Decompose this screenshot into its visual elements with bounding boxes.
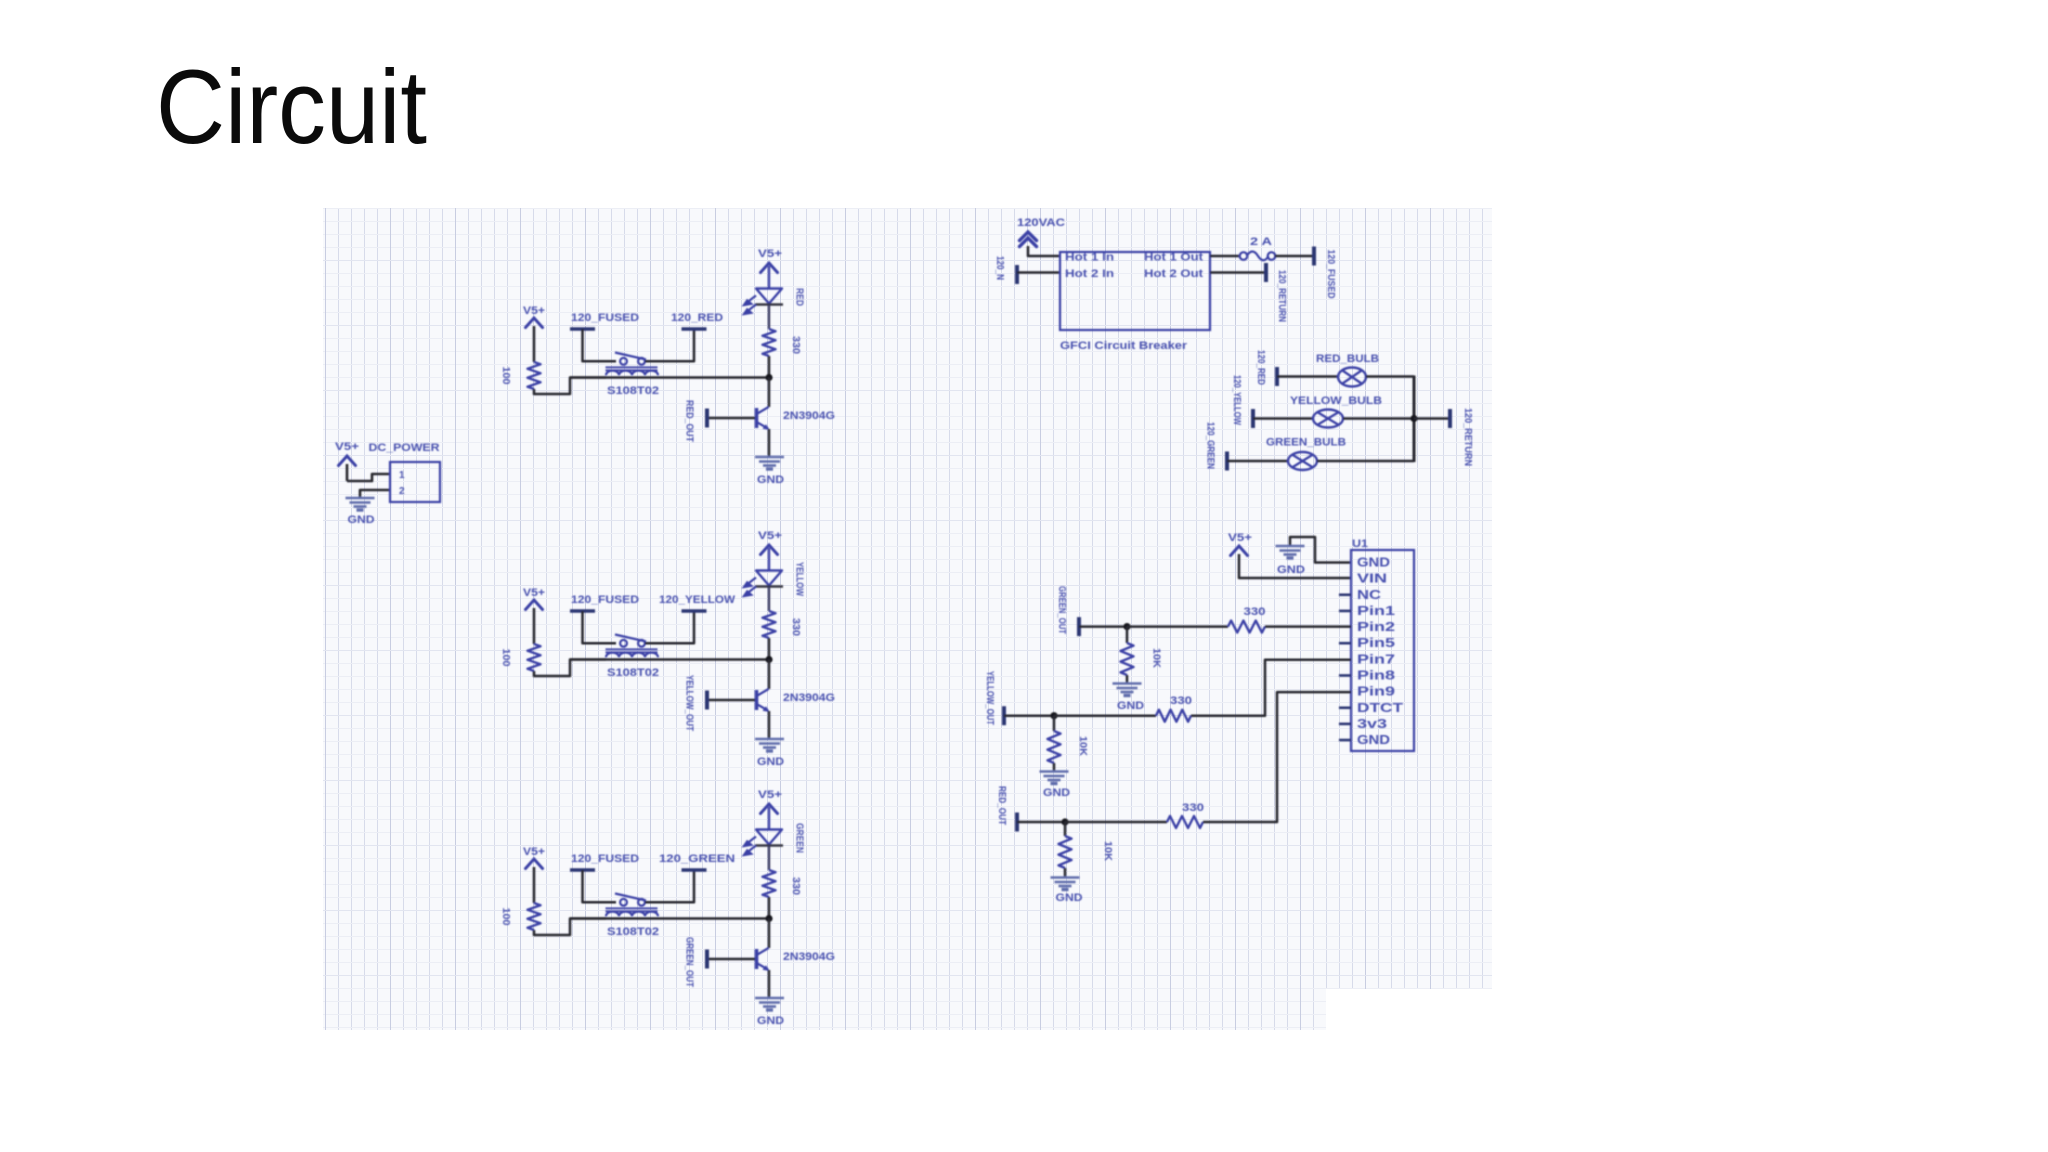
- svg-text:U1: U1: [1352, 538, 1368, 550]
- power flag V5+ (LED supply (RED driver)): [761, 263, 778, 273]
- svg-text:YELLOW_OUT: YELLOW_OUT: [684, 675, 695, 731]
- wire switch to 120_RED (RED driver): [645, 329, 694, 361]
- svg-text:GND: GND: [1357, 555, 1390, 570]
- relay switch contact (YELLOW driver): [615, 635, 646, 647]
- wire V5+ to resistor (RED driver): [533, 326, 536, 362]
- wire junction to transistor collector (YELLOW driver): [768, 660, 771, 690]
- net label 120_RETURN (breaker): [1264, 263, 1268, 282]
- wire 120_N to Hot 2 In: [1017, 271, 1059, 274]
- power flag V5+ (DC_POWER): [339, 456, 356, 466]
- node junction (GREEN driver): [765, 915, 772, 922]
- ground (U1 GND hook): [1276, 546, 1305, 558]
- wire junction to resistor 10K (green): [1126, 627, 1129, 643]
- svg-text:2: 2: [399, 486, 405, 497]
- wire junction to resistor 10K (red): [1064, 822, 1067, 836]
- net label 120_YELLOW (YELLOW driver): [682, 609, 707, 613]
- relay switch contact (RED driver): [615, 353, 646, 365]
- wire 10K to ground (red): [1064, 868, 1067, 877]
- svg-text:120_FUSED: 120_FUSED: [1325, 250, 1336, 299]
- wire Hot 2 Out to 120_RETURN: [1210, 271, 1264, 274]
- wire RED_OUT to junction: [1017, 821, 1065, 824]
- connector U1: [1351, 550, 1414, 751]
- wire GREEN_OUT to junction: [1079, 625, 1127, 628]
- svg-text:NC: NC: [1357, 587, 1382, 602]
- U1 pin 3v3: [1339, 723, 1351, 726]
- wire 120_FUSED to switch (GREEN driver): [583, 870, 617, 902]
- svg-text:GREEN_OUT: GREEN_OUT: [1056, 586, 1067, 634]
- svg-text:Pin9: Pin9: [1357, 684, 1395, 699]
- wire V5+ to LED (YELLOW driver): [768, 548, 770, 570]
- svg-text:V5+: V5+: [523, 305, 545, 317]
- wire switch to 120_GREEN (GREEN driver): [645, 870, 694, 902]
- GFCI Circuit Breaker box: [1060, 252, 1210, 330]
- power flag V5+ (LED supply (YELLOW driver)): [761, 545, 778, 555]
- svg-text:120_YELLOW: 120_YELLOW: [659, 594, 736, 606]
- wire junction to transistor collector (GREEN driver): [768, 919, 771, 949]
- svg-text:RED_OUT: RED_OUT: [684, 400, 695, 442]
- wire GREEN_BULB to return bus: [1317, 460, 1414, 463]
- wire junction to resistor 330 (green): [1127, 625, 1228, 628]
- resistor 330 (GREEN driver): [763, 870, 776, 897]
- svg-text:YELLOW_OUT: YELLOW_OUT: [984, 671, 995, 725]
- net label 120_FUSED (GREEN driver): [570, 868, 595, 872]
- relay switch contact (GREEN driver): [615, 894, 646, 906]
- wire V5+ to LED (RED driver): [768, 266, 770, 288]
- svg-text:V5+: V5+: [1228, 532, 1252, 544]
- svg-text:V5+: V5+: [523, 587, 545, 599]
- svg-text:Hot 1 Out: Hot 1 Out: [1144, 252, 1203, 264]
- net label 120_RED (RED driver): [682, 327, 707, 331]
- net label 120_RETURN (bulbs): [1448, 409, 1452, 428]
- svg-text:GND: GND: [1357, 732, 1390, 747]
- wire fuse to 120_FUSED: [1275, 255, 1313, 258]
- wire resistor 330 to U1 Pin7: [1191, 660, 1351, 716]
- power flag V5+ (U1): [1231, 546, 1248, 556]
- wire resistor 330 to U1 Pin2: [1265, 625, 1351, 628]
- wire YELLOW_OUT to junction: [1004, 714, 1054, 717]
- svg-text:GND: GND: [1056, 892, 1083, 904]
- svg-text:2N3904G: 2N3904G: [783, 692, 835, 704]
- svg-text:DTCT: DTCT: [1357, 700, 1403, 715]
- net label 120_GREEN (bulb feed): [1225, 452, 1229, 471]
- svg-text:Pin2: Pin2: [1357, 619, 1395, 634]
- svg-text:V5+: V5+: [335, 441, 359, 453]
- resistor 10K (yellow pulldown): [1048, 731, 1061, 763]
- svg-text:Hot 2 Out: Hot 2 Out: [1144, 268, 1203, 280]
- net label 120_FUSED (YELLOW driver): [570, 609, 595, 613]
- svg-text:GND: GND: [1043, 787, 1070, 799]
- svg-text:S108T02: S108T02: [607, 667, 659, 679]
- relay coil S108T02 (GREEN driver): [606, 907, 658, 909]
- wire base (RED driver): [709, 417, 755, 420]
- wire resistor to relay coil (GREEN driver): [534, 919, 606, 936]
- wire base (GREEN driver): [709, 958, 755, 961]
- lamp RED_BULB: [1338, 368, 1366, 387]
- wire 120_FUSED to switch (YELLOW driver): [583, 611, 617, 643]
- net label RED_OUT (RED driver): [705, 409, 709, 428]
- node RED_OUT junction: [1061, 818, 1068, 825]
- resistor 100 (GREEN driver): [528, 903, 541, 930]
- svg-text:GREEN: GREEN: [794, 823, 805, 853]
- svg-text:Hot 2 In: Hot 2 In: [1065, 268, 1114, 280]
- svg-text:GND: GND: [757, 1015, 784, 1027]
- svg-text:120_YELLOW: 120_YELLOW: [1231, 375, 1242, 425]
- wire LED to resistor 330 (YELLOW driver): [768, 587, 770, 612]
- wire 120_RED to RED_BULB: [1277, 375, 1338, 378]
- LED YELLOW (YELLOW driver): [756, 571, 782, 586]
- svg-text:2N3904G: 2N3904G: [783, 951, 835, 963]
- svg-text:GFCI Circuit Breaker: GFCI Circuit Breaker: [1060, 340, 1188, 352]
- svg-text:10K: 10K: [1077, 736, 1088, 757]
- resistor 330 (YELLOW driver): [763, 611, 776, 638]
- wire ground to U1 GND pin: [1290, 537, 1350, 563]
- wire relay coil to junction (RED driver): [570, 376, 769, 379]
- node YELLOW_OUT junction: [1050, 712, 1057, 719]
- svg-text:120_RED: 120_RED: [1255, 350, 1266, 385]
- svg-text:330: 330: [1182, 802, 1204, 814]
- svg-text:Pin7: Pin7: [1357, 651, 1395, 666]
- wire RED_BULB to return bus: [1366, 375, 1414, 378]
- relay coil S108T02 (YELLOW driver): [606, 648, 658, 650]
- U1 pin Pin8: [1339, 674, 1351, 677]
- svg-text:Hot 1 In: Hot 1 In: [1065, 252, 1114, 264]
- net label 120_N: [1015, 265, 1019, 284]
- svg-text:V5+: V5+: [758, 248, 782, 260]
- net label 120_YELLOW (bulb feed): [1251, 409, 1255, 428]
- net label GREEN_OUT (U1 input): [1077, 617, 1081, 636]
- wire resistor 330 to junction (RED driver): [768, 356, 771, 378]
- power flag V5+ (relay supply (GREEN driver)): [526, 859, 543, 869]
- svg-text:2N3904G: 2N3904G: [783, 410, 835, 422]
- wire LED to resistor 330 (GREEN driver): [768, 846, 770, 871]
- wire junction to transistor collector (RED driver): [768, 378, 771, 408]
- svg-text:GND: GND: [757, 756, 784, 768]
- net label 120_RED (bulb feed): [1275, 367, 1279, 386]
- node GREEN_OUT junction: [1123, 623, 1130, 630]
- svg-text:10K: 10K: [1102, 841, 1113, 862]
- svg-text:S108T02: S108T02: [607, 926, 659, 938]
- svg-text:S108T02: S108T02: [607, 385, 659, 397]
- wire V5+ to resistor (GREEN driver): [533, 867, 536, 903]
- wire DC_POWER pin 2 to ground: [360, 490, 389, 497]
- svg-text:V5+: V5+: [523, 846, 545, 858]
- power flag V5+ (relay supply (YELLOW driver)): [526, 600, 543, 610]
- connector J1 DC_POWER: [390, 462, 440, 502]
- wire V5+ to LED (GREEN driver): [768, 807, 770, 829]
- resistor 330 (green, to Pin2): [1228, 621, 1265, 633]
- svg-text:V5+: V5+: [758, 789, 782, 801]
- svg-text:10K: 10K: [1151, 648, 1162, 669]
- wire resistor 330 to junction (GREEN driver): [768, 897, 771, 919]
- wire relay coil to junction (GREEN driver): [570, 917, 769, 920]
- svg-text:120_RETURN: 120_RETURN: [1462, 408, 1473, 466]
- node return bus junction: [1410, 415, 1417, 422]
- svg-text:RED_BULB: RED_BULB: [1316, 353, 1379, 365]
- svg-text:1: 1: [399, 470, 405, 481]
- resistor 330 (red, to Pin9): [1167, 816, 1203, 828]
- svg-text:GND: GND: [1277, 564, 1305, 576]
- wire YELLOW_BULB to return bus: [1343, 417, 1414, 420]
- net label YELLOW_OUT (U1 input): [1002, 706, 1006, 725]
- svg-text:120VAC: 120VAC: [1017, 217, 1065, 229]
- wire resistor to relay coil (YELLOW driver): [534, 660, 606, 677]
- svg-text:VIN: VIN: [1357, 571, 1387, 586]
- resistor 100 (RED driver): [528, 362, 541, 389]
- return bus wire: [1413, 376, 1416, 463]
- wire V5+ to DC_POWER pin 1: [346, 464, 349, 481]
- wire Hot 1 Out to fuse: [1210, 255, 1240, 258]
- wire 10K to ground (yellow): [1053, 763, 1056, 771]
- svg-text:120_N: 120_N: [994, 256, 1005, 280]
- ground (yellow pulldown): [1040, 772, 1069, 784]
- svg-text:3v3: 3v3: [1357, 716, 1387, 731]
- wire 120_GREEN to GREEN_BULB: [1227, 460, 1288, 463]
- net label GREEN_OUT (GREEN driver): [705, 950, 709, 969]
- U1 pin GND: [1339, 739, 1351, 742]
- wire junction to resistor 10K (yellow): [1053, 716, 1056, 731]
- svg-text:GND: GND: [757, 474, 784, 486]
- power flag 120VAC: [1020, 232, 1037, 247]
- net label 120_GREEN (GREEN driver): [682, 868, 707, 872]
- wire junction to resistor 330 (red): [1065, 821, 1167, 824]
- ground (emitter (GREEN driver)): [755, 998, 784, 1010]
- wire 10K to ground (green): [1126, 675, 1129, 683]
- U1 pin DTCT: [1339, 706, 1351, 709]
- wire 120VAC to Hot 1 In: [1028, 246, 1059, 256]
- transistor Q 2N3904G (YELLOW driver): [757, 689, 769, 711]
- wire 120_FUSED to switch (RED driver): [583, 329, 617, 361]
- ground (DC_POWER): [346, 498, 375, 510]
- wire resistor to relay coil (RED driver): [534, 378, 606, 395]
- U1 pin NC: [1339, 593, 1351, 596]
- fuse F1 2 A: [1240, 252, 1276, 261]
- net label YELLOW_OUT (YELLOW driver): [705, 691, 709, 710]
- ground (emitter (YELLOW driver)): [755, 739, 784, 751]
- svg-text:RED: RED: [794, 288, 805, 306]
- svg-text:120_RETURN: 120_RETURN: [1276, 270, 1287, 322]
- resistor 10K (red pulldown): [1059, 836, 1072, 868]
- wire junction to resistor 330 (yellow): [1054, 714, 1156, 717]
- U1 pin Pin5: [1339, 642, 1351, 645]
- wire V5+ to resistor (YELLOW driver): [533, 608, 536, 644]
- wire switch to 120_YELLOW (YELLOW driver): [645, 611, 694, 643]
- svg-text:GND: GND: [1117, 700, 1144, 712]
- svg-text:120_FUSED: 120_FUSED: [571, 312, 639, 324]
- node junction (YELLOW driver): [765, 656, 772, 663]
- transistor Q 2N3904G (RED driver): [757, 407, 769, 429]
- svg-text:120_FUSED: 120_FUSED: [571, 853, 639, 865]
- svg-text:100: 100: [500, 649, 511, 667]
- svg-text:330: 330: [1244, 606, 1266, 618]
- svg-text:V5+: V5+: [758, 530, 782, 542]
- wire return bus to 120_RETURN: [1414, 417, 1449, 420]
- power flag V5+ (relay supply (RED driver)): [526, 318, 543, 328]
- wire emitter to ground (GREEN driver): [768, 970, 771, 998]
- resistor 10K (green pulldown): [1121, 643, 1134, 675]
- wire resistor 330 to junction (YELLOW driver): [768, 638, 771, 660]
- svg-text:Pin1: Pin1: [1357, 603, 1395, 618]
- net label RED_OUT (U1 input): [1015, 813, 1019, 832]
- wire base (YELLOW driver): [709, 699, 755, 702]
- svg-text:GREEN_BULB: GREEN_BULB: [1266, 437, 1346, 449]
- svg-text:120_GREEN: 120_GREEN: [1205, 422, 1216, 469]
- wire V5+ to VIN: [1239, 554, 1350, 578]
- net label 120_FUSED (RED driver): [570, 327, 595, 331]
- svg-text:YELLOW_BULB: YELLOW_BULB: [1290, 395, 1382, 407]
- power flag V5+ (LED supply (GREEN driver)): [761, 804, 778, 814]
- svg-text:120_GREEN: 120_GREEN: [659, 853, 735, 865]
- wire emitter to ground (YELLOW driver): [768, 711, 771, 739]
- net label 120_FUSED (fused feed): [1312, 247, 1316, 266]
- svg-text:330: 330: [1170, 695, 1192, 707]
- svg-text:GREEN_OUT: GREEN_OUT: [684, 937, 695, 987]
- wire LED to resistor 330 (RED driver): [768, 305, 770, 330]
- svg-text:RED_OUT: RED_OUT: [996, 786, 1007, 825]
- node junction (RED driver): [765, 374, 772, 381]
- resistor 330 (yellow, to Pin7): [1156, 710, 1191, 722]
- svg-text:Pin5: Pin5: [1357, 635, 1395, 650]
- svg-text:100: 100: [500, 367, 511, 385]
- ground (emitter (RED driver)): [755, 457, 784, 469]
- relay coil S108T02 (RED driver): [606, 366, 658, 368]
- LED GREEN (GREEN driver): [756, 830, 782, 845]
- LED RED (RED driver): [756, 289, 782, 304]
- svg-text:Pin8: Pin8: [1357, 667, 1395, 682]
- ground (green pulldown): [1113, 684, 1142, 696]
- resistor 100 (YELLOW driver): [528, 644, 541, 671]
- resistor 330 (RED driver): [763, 329, 776, 356]
- svg-text:120_FUSED: 120_FUSED: [571, 594, 639, 606]
- svg-text:330: 330: [790, 618, 801, 636]
- svg-text:330: 330: [790, 877, 801, 895]
- wire relay coil to junction (YELLOW driver): [570, 658, 769, 661]
- svg-text:GND: GND: [348, 514, 375, 526]
- svg-text:YELLOW: YELLOW: [794, 562, 805, 596]
- svg-text:Circuit: Circuit: [156, 49, 427, 166]
- U1 pin Pin1: [1339, 610, 1351, 613]
- wire emitter to ground (RED driver): [768, 429, 771, 457]
- svg-text:DC_POWER: DC_POWER: [369, 442, 440, 454]
- wire resistor 330 to U1 Pin9: [1203, 692, 1351, 822]
- svg-text:330: 330: [790, 336, 801, 354]
- ground (red pulldown): [1051, 878, 1080, 890]
- svg-text:120_RED: 120_RED: [671, 312, 723, 324]
- wire 120_YELLOW to YELLOW_BULB: [1253, 417, 1313, 420]
- lamp GREEN_BULB: [1288, 452, 1317, 470]
- svg-text:2 A: 2 A: [1250, 236, 1272, 248]
- transistor Q 2N3904G (GREEN driver): [757, 948, 769, 970]
- lamp YELLOW_BULB: [1313, 410, 1343, 428]
- svg-text:100: 100: [500, 908, 511, 926]
